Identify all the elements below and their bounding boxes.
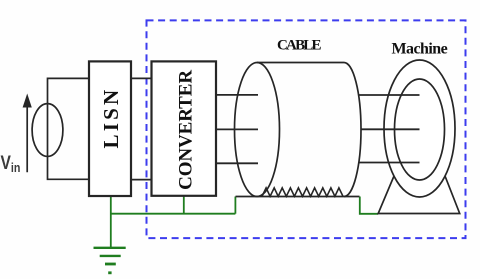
EUT boundary dashed box: [147, 20, 466, 238]
source loop wires: [48, 78, 90, 179]
machine inner ellipse: [395, 79, 445, 180]
wire LISN to converter bottom: [131, 179, 152, 181]
source V1 circle: [32, 104, 63, 157]
wire LISN to converter top: [131, 77, 152, 79]
wire converter to cable phase 3: [216, 162, 258, 164]
svg-text:Machine: Machine: [392, 41, 448, 58]
cable cylinder body top: [257, 62, 344, 64]
cable right end cap: [344, 63, 361, 197]
svg-text:CONVERTER: CONVERTER: [175, 70, 196, 190]
svg-text:LISN: LISN: [99, 87, 123, 149]
wire converter ground drop: [183, 196, 185, 214]
LISN box: [89, 61, 131, 196]
wire cable to machine phase 1: [359, 94, 420, 96]
machine outer ellipse: [384, 60, 455, 197]
wire cable to machine phase 2: [361, 128, 420, 130]
wire converter to cable phase 1: [216, 94, 258, 96]
wire converter to cable phase 2: [216, 128, 258, 130]
wire green bus horizontal: [111, 213, 236, 215]
cable cylinder body bottom (shield): [236, 196, 360, 198]
converter box: [152, 61, 217, 195]
wire loop: [48, 78, 90, 179]
ground symbol: [94, 248, 126, 274]
svg-text:Vin: Vin: [1, 152, 21, 176]
cable left ellipse: [235, 63, 280, 197]
arrow Vin: [23, 94, 32, 173]
wire cable to machine ground: [360, 197, 378, 214]
wire up to cable shield: [234, 197, 236, 214]
wire LISN bottom down: [110, 196, 112, 248]
zigzag shield bond: [262, 188, 343, 196]
wire cable to machine phase 3: [359, 162, 420, 164]
machine base trapezoid: [378, 176, 460, 214]
ground wire from LISN to earth: [111, 196, 378, 248]
svg-text:CABLE: CABLE: [277, 38, 321, 54]
